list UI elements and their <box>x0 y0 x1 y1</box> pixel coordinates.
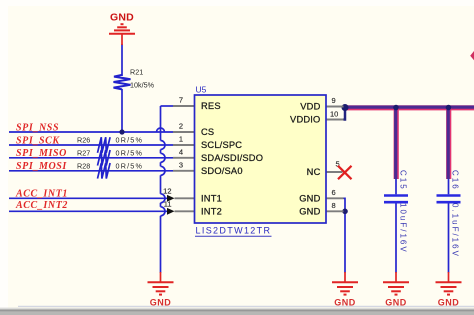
svg-text:6: 6 <box>332 188 336 197</box>
svg-text:INT1: INT1 <box>201 194 222 204</box>
svg-text:8: 8 <box>332 201 336 210</box>
svg-text:R21: R21 <box>130 68 143 77</box>
svg-text:4: 4 <box>179 147 183 156</box>
svg-text:R27: R27 <box>77 149 90 158</box>
svg-text:ACC_INT1: ACC_INT1 <box>15 189 68 200</box>
svg-text:0R/5%: 0R/5% <box>116 162 144 171</box>
svg-text:INT2: INT2 <box>201 207 222 217</box>
svg-text:10: 10 <box>330 110 338 119</box>
svg-text:1: 1 <box>179 135 183 144</box>
svg-text:10k/5%: 10k/5% <box>130 81 155 90</box>
svg-text:VDDIO: VDDIO <box>290 115 320 125</box>
svg-text:12: 12 <box>163 186 171 195</box>
svg-text:0R/5%: 0R/5% <box>116 149 144 158</box>
svg-text:GND: GND <box>110 12 134 24</box>
svg-text:LIS2DTW12TR: LIS2DTW12TR <box>196 226 272 236</box>
svg-text:SPI_MOSI: SPI_MOSI <box>16 161 67 172</box>
svg-text:CS: CS <box>201 127 214 137</box>
svg-text:0.1uF/16V: 0.1uF/16V <box>451 203 460 258</box>
svg-text:GND: GND <box>150 298 172 308</box>
svg-text:SDO/SA0: SDO/SA0 <box>201 166 243 176</box>
svg-text:RES: RES <box>201 101 221 111</box>
svg-text:ACC_INT2: ACC_INT2 <box>15 200 68 211</box>
svg-text:R26: R26 <box>77 136 90 145</box>
svg-text:9: 9 <box>332 96 336 105</box>
svg-text:SPI_NSS: SPI_NSS <box>16 122 59 133</box>
svg-text:GND: GND <box>299 207 320 217</box>
svg-text:2: 2 <box>179 122 183 131</box>
svg-text:GND: GND <box>299 194 320 204</box>
svg-text:U5: U5 <box>196 85 207 95</box>
svg-text:NC: NC <box>307 167 321 177</box>
svg-text:SDA/SDI/SDO: SDA/SDI/SDO <box>201 153 263 163</box>
svg-text:10uF/16V: 10uF/16V <box>399 203 408 254</box>
svg-text:C15: C15 <box>399 170 408 191</box>
svg-text:C16: C16 <box>451 170 460 191</box>
svg-text:0R/5%: 0R/5% <box>116 136 144 145</box>
svg-text:7: 7 <box>179 96 183 105</box>
svg-text:3: 3 <box>179 160 183 169</box>
svg-text:R28: R28 <box>77 162 90 171</box>
svg-text:SPI_SCK: SPI_SCK <box>16 135 60 146</box>
svg-text:11: 11 <box>164 199 172 208</box>
svg-text:SPI_MISO: SPI_MISO <box>16 148 67 159</box>
svg-text:SCL/SPC: SCL/SPC <box>201 140 242 150</box>
svg-text:VDD: VDD <box>300 102 320 112</box>
